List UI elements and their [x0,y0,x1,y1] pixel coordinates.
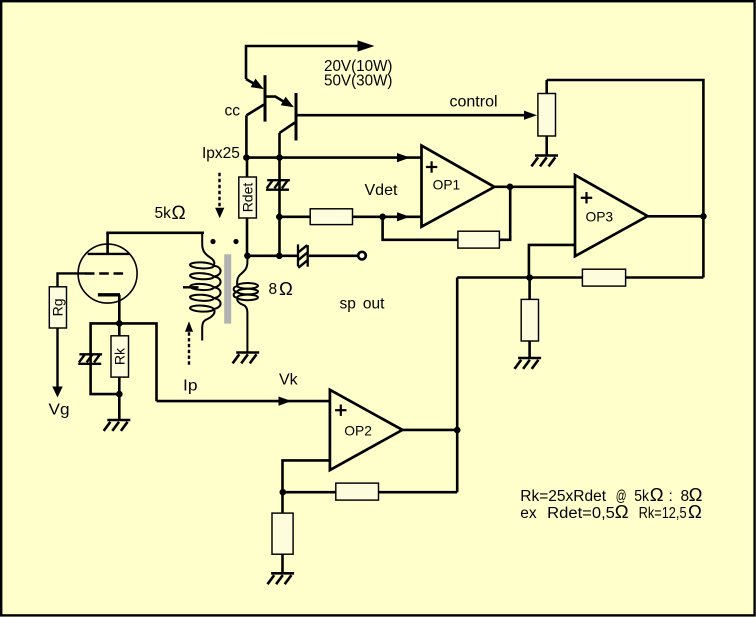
vacuum tube V1 envelope [78,244,137,303]
node: OP1 - input junction dot [379,214,386,221]
wire: OP1 feedback (node, down, resistor, up to output) [383,187,511,240]
resistor (OP1 feedback) [458,231,500,248]
svg-text:Vk: Vk [279,372,299,389]
wire: OP2 feedback line [283,491,336,494]
svg-text:control: control [450,93,498,110]
wire: sp out line [247,255,297,258]
ground (below control resistor) [531,156,558,167]
wire: OP3 feedback line [457,276,582,279]
op-amp OP2 [330,390,403,470]
resistor Rk [111,323,129,394]
svg-text:50V(30W): 50V(30W) [324,73,393,90]
transformer phasing dot (primary) [210,239,215,244]
node: OP2 - input junction dot [280,489,287,496]
svg-text:Rg: Rg [50,298,66,316]
ground (below transformer secondary) [233,353,260,364]
svg-text:Vg: Vg [49,402,70,419]
node: transformer top junction dot [244,253,251,260]
capacitor (hatched) on Ipx25 branch [266,158,290,256]
wire: plate to transformer primary [106,232,204,235]
svg-text:Rdet: Rdet [239,183,255,213]
wire: cathode bypass loop (left) [91,323,120,394]
svg-text:5k: 5k [155,205,172,222]
node: cathode junction dot [116,320,123,327]
svg-text:exRdet=0,5ΩRk=12,5Ω: exRdet=0,5ΩRk=12,5Ω [520,501,702,522]
tube grid (dashed) [85,272,123,275]
wire: control line from Q2 base to control resistor [297,114,525,117]
svg-text:cc: cc [225,103,241,120]
node: Rk bottom junction dot [116,391,123,398]
svg-text:Ip: Ip [183,378,198,395]
wire: Vdet resistor to OP1 - input [353,216,422,219]
resistor (OP2 - input to ground) [272,492,293,573]
tube plate [88,233,130,254]
node: OP3 output junction dot [700,213,707,220]
svg-text:Ipx25: Ipx25 [202,145,240,162]
wire: Ipx25 line to OP1 + input [246,156,421,159]
wire: grid lead to Rg [58,273,86,286]
wire: OP2 - input branch [283,460,330,492]
wire: Q1 collector down to Ipx25 node [245,115,248,157]
ground (below OP2 input resistor) [268,573,295,584]
node: OP3 - input junction dot [526,274,533,281]
resistor (OP3 - input to ground) [521,278,538,359]
resistor (control, voltage-controlled) [538,80,556,155]
svg-text:Ω: Ω [279,278,293,299]
node: OP1 output junction dot [507,184,514,191]
node: OP2 output junction dot [454,427,461,434]
svg-text:OP2: OP2 [344,423,372,438]
wire: Vdet branch to resistor [279,216,310,219]
dashed arrow Ipx25 (down) [215,173,224,219]
wire: Q2 collector down to Ipx25 node [278,133,281,158]
transistor Q2 (cc pair, right) [266,93,296,140]
svg-text:8: 8 [269,281,278,298]
terminal: sp out circle [358,252,366,260]
transformer core [224,254,231,323]
tube cathode [98,293,120,296]
wire: OP2 output to vertical [402,429,457,432]
svg-text:Ω: Ω [172,203,186,224]
capacitor (hatched, sp out coupling) [298,244,308,267]
resistor (OP3 feedback) [582,269,625,286]
op-amp OP3 [575,175,648,256]
wire: Vg arrow below Rg [52,328,62,398]
wire: top supply rail with arrow [246,46,359,79]
dashed arrow Ip (up) [185,321,193,366]
svg-text:Rk: Rk [111,347,127,365]
wire: OP1 output to OP3 + input [494,186,575,189]
wire: cathode down to node [118,295,121,324]
transistor Q1 (cc pair, left) [246,75,265,121]
resistor (OP2 feedback) [336,483,379,500]
wire: OP2 output vertical up to OP3 feedback [456,278,459,493]
transformer primary inner tap stroke [183,286,199,288]
wire: capacitor to sp out terminal [309,255,358,258]
node: Ipx25 junction dots [243,154,250,161]
wire: OP3 - input branch [529,245,575,278]
wire: top feedback rail from OP3 output [547,80,704,278]
capacitor (hatched, cathode bypass) [78,354,102,364]
svg-text:Vdet: Vdet [365,182,398,199]
op-amp OP1 [422,146,495,227]
transformer T1 secondary winding [234,256,258,352]
svg-text:OP3: OP3 [586,209,614,224]
resistor Rdet [239,158,257,256]
svg-text:OP1: OP1 [433,178,461,193]
svg-text:spout: spout [340,296,386,313]
transformer phasing dot (secondary) [233,239,238,244]
transformer T1 primary winding [190,233,221,341]
wire: Rk node to ground [118,394,121,420]
node: sp out junction dot [276,253,283,260]
resistor Rg [49,287,66,328]
resistor (Vdet sense) [310,209,352,225]
wire: OP3 output to right rail [648,215,704,218]
node: Vdet junction dot [276,214,283,221]
wire: Vk line into OP2 + input [157,400,330,403]
wire: cathode node to Vk / OP2 [119,323,156,401]
ground (below Rk) [104,420,131,431]
ground (below OP3 input resistor) [515,358,542,369]
